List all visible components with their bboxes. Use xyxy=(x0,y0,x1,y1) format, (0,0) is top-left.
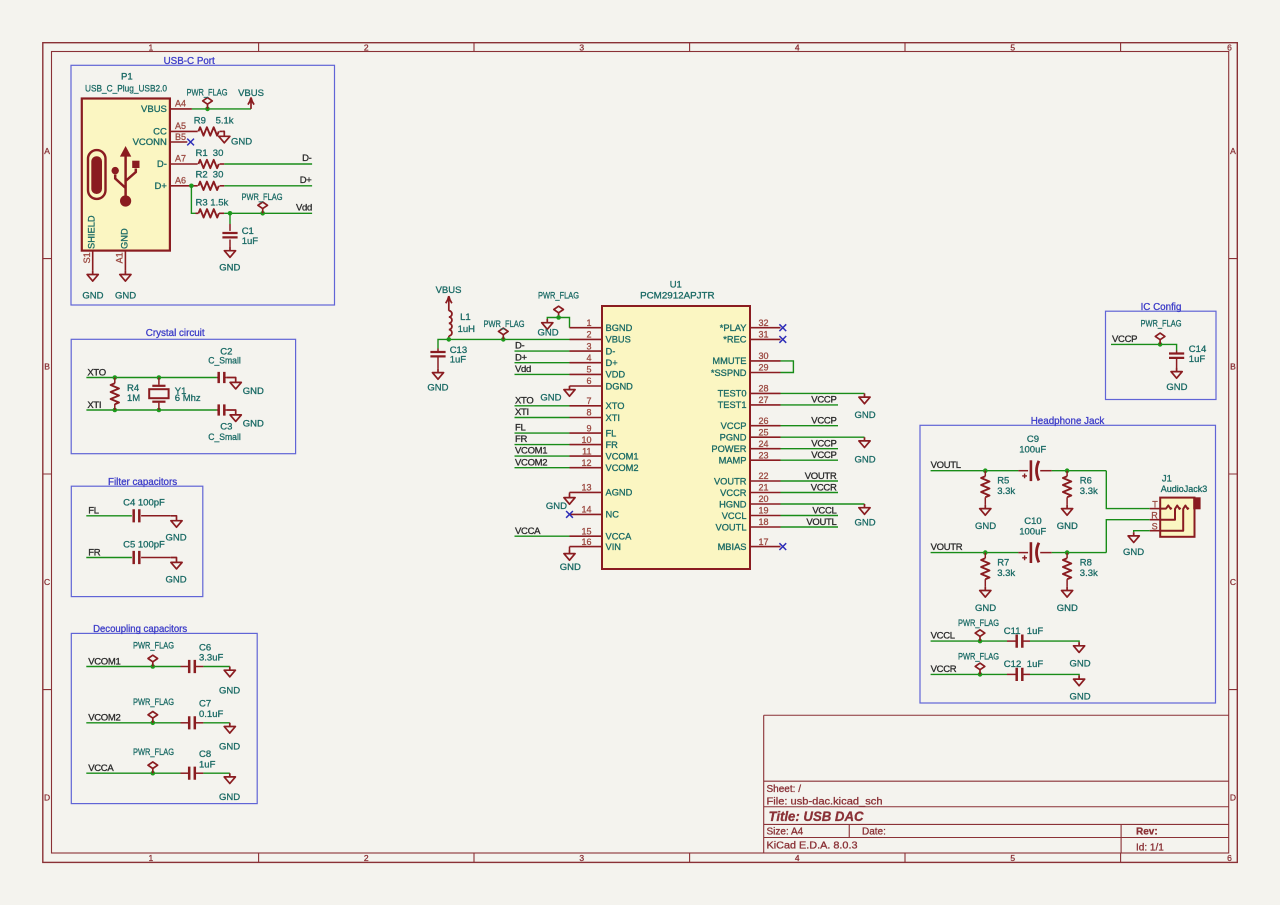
svg-text:D-: D- xyxy=(302,153,312,164)
svg-text:15: 15 xyxy=(581,526,591,536)
junction PWR_FLAG VCCP xyxy=(1158,342,1163,347)
svg-text:VBUS: VBUS xyxy=(238,88,264,99)
svg-text:POWER: POWER xyxy=(711,444,746,454)
wire VOUTL from U1 pin 18 xyxy=(781,526,839,528)
svg-text:T: T xyxy=(1152,499,1158,509)
node VCCP label at U1 pin 26 xyxy=(811,416,836,427)
wire D+ to U1 xyxy=(515,362,570,364)
svg-text:D+: D+ xyxy=(606,358,618,368)
ground GND at C7 xyxy=(219,723,240,753)
svg-text:P1: P1 xyxy=(121,72,133,83)
pin 22 VOUTR of U1 xyxy=(714,471,781,486)
no-connect on pin 17 MBIAS xyxy=(779,543,786,550)
ground GND at C13 xyxy=(427,369,448,394)
pin 29 *SSPND of U1 xyxy=(711,363,781,378)
svg-text:PWR_FLAG: PWR_FLAG xyxy=(958,618,999,629)
capacitor C8 xyxy=(181,749,216,780)
svg-text:30: 30 xyxy=(759,351,769,361)
svg-text:VCOM2: VCOM2 xyxy=(88,713,120,724)
svg-text:VDD: VDD xyxy=(606,370,626,380)
pin 15 VCCA of U1 xyxy=(570,526,633,541)
svg-text:10: 10 xyxy=(581,435,591,445)
svg-text:DGND: DGND xyxy=(606,381,634,391)
svg-text:4: 4 xyxy=(795,43,800,53)
ground GND at C14 xyxy=(1166,368,1187,393)
svg-text:8: 8 xyxy=(586,408,591,418)
svg-text:C12: C12 xyxy=(1004,659,1021,670)
svg-text:*SSPND: *SSPND xyxy=(711,368,747,378)
svg-text:GND: GND xyxy=(219,263,240,274)
svg-text:Rev:: Rev: xyxy=(1136,827,1158,838)
svg-text:GND: GND xyxy=(219,742,240,753)
svg-text:FR: FR xyxy=(515,434,528,445)
svg-text:R7: R7 xyxy=(997,558,1009,569)
svg-text:XTI: XTI xyxy=(606,413,620,423)
junction PWR_FLAG VBUS net xyxy=(501,337,506,342)
svg-text:VCONN: VCONN xyxy=(133,137,167,148)
svg-text:VBUS: VBUS xyxy=(141,104,167,115)
svg-text:FL: FL xyxy=(606,428,617,438)
node FL label at U1 xyxy=(515,423,526,434)
wire XTI xyxy=(86,409,217,411)
pin 6 DGND of U1 xyxy=(570,376,634,391)
wire D+ net xyxy=(224,185,312,187)
svg-text:5.1k: 5.1k xyxy=(216,115,234,126)
svg-text:26: 26 xyxy=(759,416,769,426)
pin 9 FL of U1 xyxy=(570,423,617,438)
pin 27 TEST1 of U1 xyxy=(718,395,781,410)
svg-text:USB_C_Plug_USB2.0: USB_C_Plug_USB2.0 xyxy=(85,83,167,94)
pin A6 D+ of P1 xyxy=(154,175,197,192)
node VCOM1 label xyxy=(88,656,120,667)
wire FL xyxy=(86,515,132,517)
svg-text:R3 1.5k: R3 1.5k xyxy=(196,198,229,209)
node VCCA label xyxy=(88,763,114,774)
svg-text:6 Mhz: 6 Mhz xyxy=(175,393,201,404)
wire TEST0 to GND xyxy=(781,392,865,394)
junction BGND flag xyxy=(556,315,561,320)
svg-text:R2: R2 xyxy=(196,169,208,180)
power flag PWR_FLAG on VCCA xyxy=(133,747,174,773)
pin 11 VCOM1 of U1 xyxy=(570,446,639,461)
node VCCP label at U1 pin 24 xyxy=(811,439,836,450)
frame column labels 1-6 top xyxy=(149,43,1233,53)
svg-text:5: 5 xyxy=(1010,853,1015,863)
svg-text:A7: A7 xyxy=(175,154,186,164)
wire DGND hook xyxy=(569,385,571,387)
pin 18 VOUTL of U1 xyxy=(716,517,781,532)
svg-text:3.3k: 3.3k xyxy=(997,486,1015,497)
svg-text:11: 11 xyxy=(582,446,591,456)
crystal Y1 xyxy=(149,378,201,411)
svg-text:VCCP: VCCP xyxy=(811,439,836,450)
svg-text:XTO: XTO xyxy=(515,395,533,406)
svg-text:2: 2 xyxy=(364,43,369,53)
node VCOM2 label at U1 xyxy=(515,457,547,468)
ground GND at PGND xyxy=(854,437,875,465)
wire VBUS to U1 pin 2 xyxy=(449,338,570,340)
wire VCCP to C14 xyxy=(1111,344,1177,350)
svg-text:VCCR: VCCR xyxy=(720,488,747,498)
section title Filter capacitors xyxy=(108,477,177,488)
svg-text:*PLAY: *PLAY xyxy=(720,323,747,333)
svg-text:GND: GND xyxy=(219,685,240,696)
pin 8 XTI of U1 xyxy=(570,408,620,423)
svg-text:VIN: VIN xyxy=(606,542,622,552)
ground GND at C3 xyxy=(226,410,264,430)
svg-text:GND: GND xyxy=(165,574,186,585)
svg-text:2: 2 xyxy=(586,330,591,340)
wire VOUTR xyxy=(931,552,1019,554)
pin 19 VCCL of U1 xyxy=(722,506,781,521)
node VOUTR label xyxy=(931,542,963,553)
pin 10 FR of U1 xyxy=(570,435,619,450)
svg-text:R6: R6 xyxy=(1080,476,1092,487)
svg-text:VCCP: VCCP xyxy=(721,421,747,431)
svg-text:VCOM2: VCOM2 xyxy=(515,457,547,468)
svg-text:VCCP: VCCP xyxy=(811,450,836,461)
power flag PWR_FLAG on VCOM2 xyxy=(133,697,174,723)
svg-text:File: usb-dac.kicad_sch: File: usb-dac.kicad_sch xyxy=(767,796,883,807)
wire VOUTR to jack ring xyxy=(1106,520,1149,553)
svg-text:1uF: 1uF xyxy=(199,759,216,770)
svg-text:VBUS: VBUS xyxy=(606,335,631,345)
svg-text:GND: GND xyxy=(1069,658,1090,669)
wire VCCA xyxy=(86,772,180,774)
svg-text:PWR_FLAG: PWR_FLAG xyxy=(133,747,174,758)
wire VCOM1 to U1 xyxy=(515,455,570,457)
svg-text:13: 13 xyxy=(581,483,591,493)
pin 17 MBIAS of U1 xyxy=(718,537,781,552)
capacitor C7 xyxy=(181,699,224,730)
svg-text:31: 31 xyxy=(759,330,769,340)
connector P1 value USB_C_Plug_USB2.0 xyxy=(85,83,167,94)
junction D+ xyxy=(189,184,194,189)
svg-text:FL: FL xyxy=(515,423,526,434)
svg-text:A1: A1 xyxy=(115,252,125,263)
connector J1 reference xyxy=(1162,474,1172,485)
svg-text:GND: GND xyxy=(560,562,581,573)
svg-text:24: 24 xyxy=(759,439,769,449)
svg-text:GND: GND xyxy=(120,228,130,249)
wire D+ to R3 xyxy=(191,186,195,214)
svg-text:R: R xyxy=(1151,510,1158,520)
junction PWR_FLAG VCOM2 xyxy=(151,721,156,726)
ground GND at TEST0 xyxy=(854,393,875,421)
node VCOM1 label at U1 xyxy=(515,446,547,457)
pin 32 *PLAY of U1 xyxy=(720,318,781,333)
svg-text:Headphone Jack: Headphone Jack xyxy=(1031,416,1105,427)
power flag PWR_FLAG on VBUS xyxy=(187,88,228,109)
ground GND at C2 xyxy=(226,378,264,398)
svg-text:0.1uF: 0.1uF xyxy=(199,709,223,720)
svg-text:12: 12 xyxy=(581,458,591,468)
ground GND at SHIELD xyxy=(82,271,103,302)
svg-text:PWR_FLAG: PWR_FLAG xyxy=(1141,319,1182,330)
section title USB-C Port xyxy=(164,56,215,67)
wire VBUS node xyxy=(192,108,251,110)
svg-text:NC: NC xyxy=(606,510,620,520)
wire VCCP from U1 pin 26 xyxy=(781,425,839,427)
svg-text:7: 7 xyxy=(586,396,591,406)
pin R of J1 xyxy=(1150,510,1161,520)
wire XTO xyxy=(86,377,217,379)
svg-text:XTI: XTI xyxy=(515,407,529,418)
wire C1 top xyxy=(229,213,231,224)
ground GND at R6 xyxy=(1057,505,1078,532)
node VCCL label at U1 pin 19 xyxy=(812,505,836,516)
pin 26 VCCP of U1 xyxy=(721,416,781,431)
svg-text:22: 22 xyxy=(759,471,769,481)
pin 24 POWER of U1 xyxy=(711,439,780,454)
svg-text:100uF: 100uF xyxy=(1019,526,1046,537)
resistor R5 xyxy=(981,471,1015,505)
node Vdd label at U1 xyxy=(515,364,531,375)
svg-text:6: 6 xyxy=(1227,43,1232,53)
wire VOUTR from U1 pin 22 xyxy=(781,480,839,482)
wire FR xyxy=(86,557,132,559)
svg-text:GND: GND xyxy=(540,393,561,404)
node FR label at U1 xyxy=(515,434,528,445)
node D+ label xyxy=(300,175,313,186)
svg-text:25: 25 xyxy=(759,427,769,437)
svg-text:3.3k: 3.3k xyxy=(1080,486,1098,497)
frame row labels A-D left xyxy=(44,146,50,802)
svg-text:D-: D- xyxy=(515,341,525,352)
wire VIN hook xyxy=(569,547,571,550)
section title Crystal circuit xyxy=(146,328,205,339)
node XTI label xyxy=(87,400,101,411)
no-connect on pin 31 xyxy=(779,336,786,343)
ground GND at C4 xyxy=(165,516,186,544)
svg-text:VCCA: VCCA xyxy=(88,763,114,774)
svg-text:D+: D+ xyxy=(300,175,313,186)
no-connect on pin 32 xyxy=(779,324,786,331)
svg-text:MMUTE: MMUTE xyxy=(712,356,746,366)
svg-text:B5: B5 xyxy=(175,132,186,142)
node VOUTR label at U1 pin 22 xyxy=(805,471,837,482)
ground GND at C8 xyxy=(219,773,240,803)
svg-text:AudioJack3: AudioJack3 xyxy=(1161,484,1207,495)
svg-text:3.3k: 3.3k xyxy=(1080,568,1098,579)
svg-text:17: 17 xyxy=(759,537,769,547)
power flag PWR_FLAG on VCOM1 xyxy=(133,641,174,667)
wire VCOM2 to U1 xyxy=(515,467,570,469)
pin 12 VCOM2 of U1 xyxy=(570,458,639,473)
pin 31 *REC of U1 xyxy=(723,330,780,345)
IC U1 reference xyxy=(670,280,682,291)
svg-text:CC: CC xyxy=(153,127,167,138)
svg-text:A: A xyxy=(1230,146,1236,156)
node XTI label at U1 xyxy=(515,407,529,418)
svg-text:A5: A5 xyxy=(175,121,186,131)
svg-text:VCCA: VCCA xyxy=(606,532,633,542)
wire VCOM1 xyxy=(86,666,180,668)
svg-text:Vdd: Vdd xyxy=(515,364,531,375)
svg-text:U1: U1 xyxy=(670,280,682,291)
ground GND at AGND xyxy=(546,494,575,512)
junction VOUTL-R5 xyxy=(983,468,988,473)
wire MMUTE to SSPND loop xyxy=(781,361,794,373)
ground GND at R7 xyxy=(975,587,996,614)
svg-text:GND: GND xyxy=(1166,382,1187,393)
frame column labels 1-6 bottom xyxy=(149,853,1233,863)
inductor L1 xyxy=(449,311,475,340)
junction XTO-R4 xyxy=(113,375,118,380)
svg-text:Vdd: Vdd xyxy=(296,203,312,214)
svg-text:PWR_FLAG: PWR_FLAG xyxy=(958,652,999,663)
wire VOUTL xyxy=(931,470,1019,472)
wire FR to U1 xyxy=(515,444,570,446)
section title IC Config xyxy=(1141,302,1182,313)
wire VCCP from U1 pin 27 xyxy=(781,404,839,406)
svg-text:14: 14 xyxy=(581,505,591,515)
wire VCCR from U1 pin 21 xyxy=(781,492,839,494)
wire Vdd net xyxy=(224,212,312,214)
svg-text:PCM2912APJTR: PCM2912APJTR xyxy=(640,290,715,301)
svg-text:20: 20 xyxy=(759,494,769,504)
pin 5 VDD of U1 xyxy=(570,365,626,380)
svg-text:KiCad E.D.A. 8.0.3: KiCad E.D.A. 8.0.3 xyxy=(767,840,858,851)
svg-text:PWR_FLAG: PWR_FLAG xyxy=(187,88,228,99)
wire HGND to GND xyxy=(781,503,865,505)
ground GND at C5 xyxy=(165,558,186,586)
no-connect on VCONN xyxy=(187,139,194,146)
svg-text:*REC: *REC xyxy=(723,335,747,345)
resistor R2 xyxy=(196,169,225,190)
svg-text:GND: GND xyxy=(854,410,875,421)
junction XTO-Y1 xyxy=(157,375,162,380)
pin 30 MMUTE of U1 xyxy=(712,351,780,366)
pin 21 VCCR of U1 xyxy=(720,483,780,498)
svg-text:S1: S1 xyxy=(82,252,92,263)
section box Filter capacitors xyxy=(71,486,203,596)
svg-text:1uH: 1uH xyxy=(458,324,476,335)
svg-text:R1: R1 xyxy=(196,148,208,159)
svg-text:1uF: 1uF xyxy=(450,354,467,365)
svg-text:C: C xyxy=(44,577,50,587)
svg-text:C4 100pF: C4 100pF xyxy=(123,498,165,509)
resistor R3 xyxy=(196,198,229,218)
svg-text:3.3uF: 3.3uF xyxy=(199,653,223,664)
node VOUTL label xyxy=(931,460,961,471)
svg-text:1uF: 1uF xyxy=(1027,626,1044,637)
ground GND at R8 xyxy=(1057,587,1078,614)
svg-text:VCCR: VCCR xyxy=(811,482,837,493)
svg-text:GND: GND xyxy=(1057,521,1078,532)
svg-text:GND: GND xyxy=(427,383,448,394)
wire Vdd to U1 xyxy=(515,373,570,375)
svg-text:GND: GND xyxy=(1069,692,1090,703)
capacitor C9 polarized xyxy=(1018,434,1051,481)
junction PWR_FLAG VCOM1 xyxy=(151,664,156,669)
svg-text:VCOM2: VCOM2 xyxy=(606,463,639,473)
node XTO label xyxy=(87,367,105,378)
svg-text:100uF: 100uF xyxy=(1019,444,1046,455)
node VCCP label at U1 pin 23 xyxy=(811,450,836,461)
svg-text:30: 30 xyxy=(213,148,224,159)
node D- label xyxy=(302,153,312,164)
svg-text:1: 1 xyxy=(149,853,154,863)
svg-text:PWR_FLAG: PWR_FLAG xyxy=(484,319,525,330)
svg-text:18: 18 xyxy=(759,517,769,527)
svg-text:XTO: XTO xyxy=(606,401,625,411)
svg-text:A6: A6 xyxy=(175,175,186,185)
no-connect on pin 14 NC xyxy=(566,511,573,518)
svg-text:A4: A4 xyxy=(175,98,186,108)
section box Crystal circuit xyxy=(71,339,295,453)
resistor R1 xyxy=(196,148,225,168)
svg-text:D-: D- xyxy=(157,159,167,170)
svg-text:SHIELD: SHIELD xyxy=(87,215,97,249)
junction XTI-Y1 xyxy=(157,408,162,413)
svg-text:HGND: HGND xyxy=(719,499,747,509)
wire D- net xyxy=(224,163,312,165)
pin A1 GND of P1 xyxy=(115,251,126,271)
ground GND at C6 xyxy=(219,667,240,697)
wire C9 out xyxy=(1052,470,1107,472)
svg-text:C_Small: C_Small xyxy=(208,432,241,443)
svg-text:Id: 1/1: Id: 1/1 xyxy=(1136,843,1164,854)
ground GND at DGND xyxy=(540,386,575,404)
wire C13 branch xyxy=(438,339,449,348)
svg-text:D: D xyxy=(44,792,50,802)
section box USB-C Port xyxy=(71,65,335,305)
svg-text:FR: FR xyxy=(88,547,101,558)
ground GND at R5 xyxy=(975,505,996,532)
pin A7 D- of P1 xyxy=(157,154,198,171)
pin 4 D+ of U1 xyxy=(570,353,618,368)
svg-text:GND: GND xyxy=(975,521,996,532)
svg-text:GND: GND xyxy=(1123,547,1144,558)
node VCOM2 label xyxy=(88,713,120,724)
wire C6 to GND xyxy=(203,666,229,668)
title block xyxy=(764,715,1229,853)
svg-text:5: 5 xyxy=(1010,43,1015,53)
node VCCR label xyxy=(931,664,957,675)
svg-text:GND: GND xyxy=(243,386,264,397)
wire VOUTL to jack tip xyxy=(1106,471,1149,509)
resistor R9 xyxy=(194,115,234,135)
ground GND at A1 xyxy=(115,271,136,302)
svg-text:VCCL: VCCL xyxy=(722,511,747,521)
svg-text:VOUTL: VOUTL xyxy=(806,517,836,528)
wire VCCP from U1 pin 24 xyxy=(781,448,839,450)
svg-text:3: 3 xyxy=(579,853,584,863)
svg-text:GND: GND xyxy=(975,603,996,614)
svg-text:1M: 1M xyxy=(127,393,140,404)
pin 1 BGND of U1 xyxy=(570,318,633,333)
svg-text:USB-C Port: USB-C Port xyxy=(164,56,215,67)
svg-text:23: 23 xyxy=(759,450,769,460)
wire XTI to U1 xyxy=(515,417,570,419)
pin A4 VBUS of P1 xyxy=(141,98,192,115)
svg-text:TEST0: TEST0 xyxy=(718,389,747,399)
svg-text:C11: C11 xyxy=(1004,626,1021,637)
svg-text:J1: J1 xyxy=(1162,474,1172,485)
resistor R4 xyxy=(111,378,141,411)
svg-text:D+: D+ xyxy=(515,352,528,363)
svg-text:XTI: XTI xyxy=(87,400,101,411)
svg-text:GND: GND xyxy=(854,518,875,529)
svg-text:VCOM1: VCOM1 xyxy=(88,656,120,667)
svg-text:D+: D+ xyxy=(154,181,167,192)
svg-text:VCCP: VCCP xyxy=(811,395,836,406)
node FR label xyxy=(88,547,101,558)
svg-text:VCCL: VCCL xyxy=(812,505,836,516)
svg-text:D-: D- xyxy=(606,346,616,356)
svg-text:R9: R9 xyxy=(194,115,206,126)
